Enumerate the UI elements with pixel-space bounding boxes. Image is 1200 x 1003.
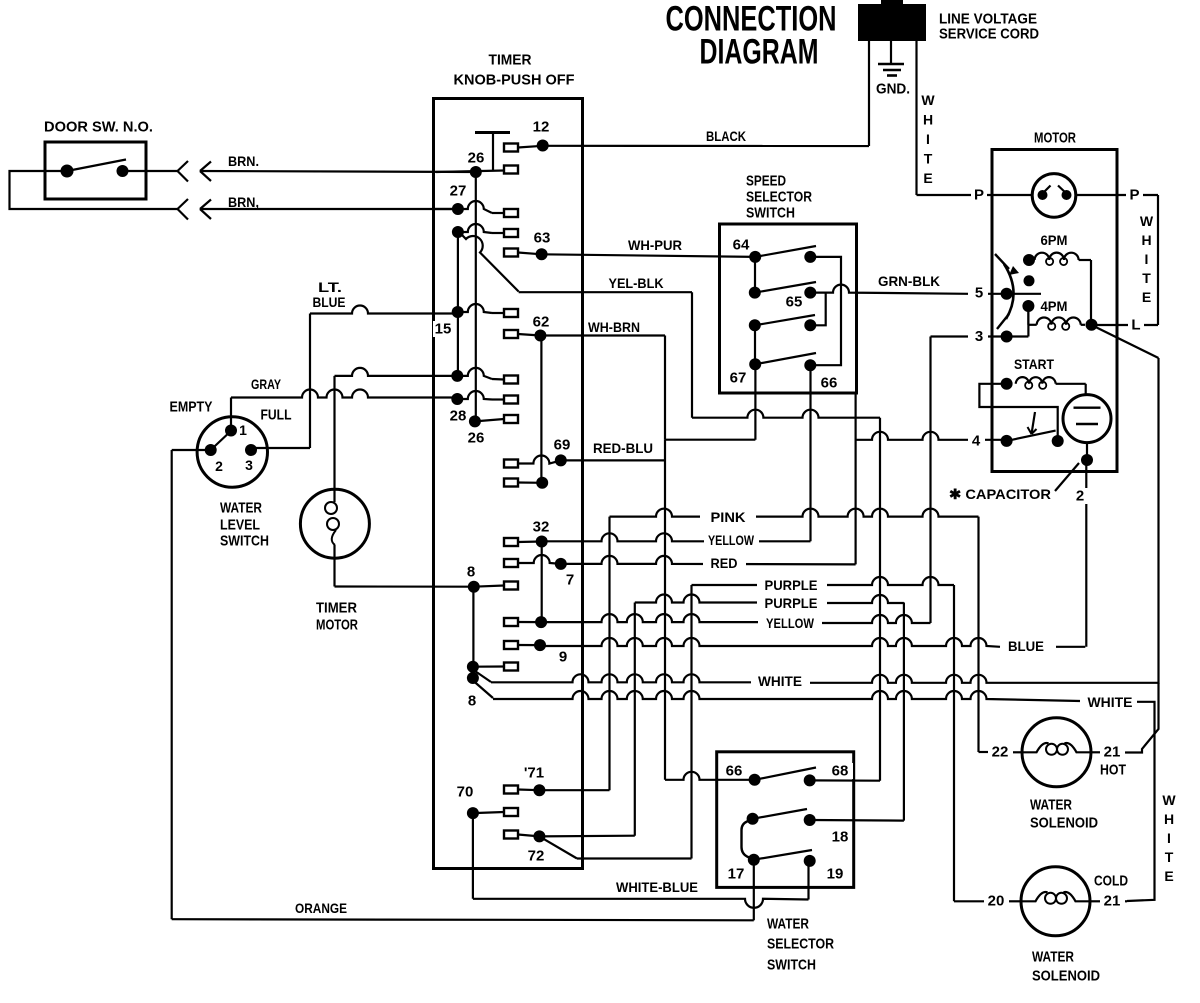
timer contact 26b [469, 415, 481, 427]
wire 71 to pink riser [539, 789, 609, 791]
speed selector contact 66 [804, 359, 837, 391]
wire YEL-BLK horizontal [519, 291, 692, 293]
motor wiper arc [995, 254, 1019, 329]
service cord (line voltage) [858, 0, 926, 41]
water selector contact 19 [804, 855, 844, 883]
timer vertical V1 26-26 [475, 172, 477, 421]
wire 62b to lug [518, 481, 542, 483]
speed selector contact 67 [730, 358, 762, 386]
motor 6PM winding contact [1023, 254, 1035, 266]
timer contact 27b [452, 226, 464, 238]
svg-text:YEL-BLK: YEL-BLK [609, 275, 664, 291]
timer contact 28/26 labels [450, 408, 485, 447]
wire P right [1076, 194, 1158, 196]
svg-text:BRN.: BRN. [228, 153, 259, 169]
wire WHITE1 run [474, 670, 1159, 683]
timer motor circle [300, 489, 369, 558]
wire WH-BRN riser [664, 336, 666, 440]
svg-text:W: W [1140, 213, 1154, 229]
wire PINK [610, 509, 979, 517]
wire WHITE2 to cold solenoid 21 [1127, 702, 1155, 901]
svg-text:12: 12 [533, 119, 550, 136]
wire WHITE-BLUE riser [472, 813, 474, 899]
svg-text:70: 70 [457, 784, 474, 801]
motor 4PM contact [1022, 300, 1034, 312]
wire 68 to yel-blk riser [810, 779, 880, 781]
svg-text:GND.: GND. [876, 81, 910, 98]
svg-text:DIAGRAM: DIAGRAM [700, 33, 819, 72]
water selector contact 66 [722, 763, 761, 786]
svg-text:TIMER: TIMER [316, 600, 357, 617]
speed selector blade row3 [755, 315, 815, 325]
label 4 (motor) [968, 432, 985, 450]
wire PINK riser from 71 [608, 517, 610, 791]
wire door switch loop left [10, 171, 178, 209]
timer vertical V2 27b-15 [457, 232, 459, 376]
svg-text:WATER: WATER [767, 916, 809, 933]
wire P line [917, 194, 1033, 196]
timer contact 27 [450, 183, 467, 216]
timer contact 12 [533, 119, 550, 152]
svg-text:SOLENOID: SOLENOID [1030, 815, 1098, 832]
door switch contact left [61, 165, 74, 178]
svg-text:26: 26 [468, 150, 485, 167]
timer vertical V5 8-8 [472, 587, 474, 678]
svg-text:E: E [923, 170, 932, 186]
speed selector vertical row3-67 [754, 325, 756, 364]
speed selector contact 64 [733, 237, 762, 263]
svg-text:SWITCH: SWITCH [767, 957, 816, 974]
wire cold 21 [1090, 900, 1127, 902]
svg-text:27: 27 [450, 183, 467, 200]
wire BLACK 12 to service cord [543, 145, 869, 147]
wire BLUE run [540, 638, 1085, 647]
svg-text:H: H [1164, 811, 1174, 827]
water selector blade 17 [754, 850, 812, 860]
wire YELLOW2 run [541, 614, 930, 623]
wire door switch to connector [123, 170, 178, 172]
speed selector U 65-row3 [810, 293, 825, 326]
wire WHITE riser from service cord to motor P [915, 41, 917, 195]
wire PURPLE1 run [692, 577, 955, 585]
wire YEL-BLK long riser to water selector 68 [879, 418, 881, 781]
wire 72 to purple1 riser [577, 857, 692, 859]
svg-text:65: 65 [786, 294, 803, 311]
wire YELLOW [542, 533, 811, 541]
timer contact 15 [433, 306, 464, 338]
speed selector row1 right contact [804, 251, 816, 263]
svg-text:72: 72 [528, 848, 545, 865]
svg-text:SPEED: SPEED [746, 173, 786, 190]
wire RED riser (speed selector) [854, 394, 856, 565]
svg-text:20: 20 [988, 893, 1005, 910]
svg-text:69: 69 [554, 437, 571, 454]
svg-text:WH-BRN: WH-BRN [588, 319, 640, 335]
svg-text:P: P [974, 187, 984, 204]
timer contact 69 [554, 437, 571, 467]
timer contact 8 mid [467, 661, 479, 673]
label WHITE (1) [753, 673, 807, 689]
svg-text:17: 17 [728, 866, 745, 883]
hot solenoid circle [1022, 718, 1091, 787]
svg-text:✱ CAPACITOR: ✱ CAPACITOR [949, 486, 1051, 502]
wire LT BLUE [310, 306, 458, 314]
svg-text:8: 8 [467, 564, 475, 581]
svg-text:H: H [923, 112, 933, 128]
svg-text:YELLOW: YELLOW [708, 532, 755, 548]
wire 72 diagonal [539, 836, 577, 858]
svg-text:GRAY: GRAY [251, 376, 282, 392]
wire motor3 riser [929, 337, 931, 624]
label 2 [1072, 488, 1088, 505]
svg-text:32: 32 [533, 519, 550, 536]
svg-text:7: 7 [566, 572, 574, 589]
label PINK [700, 509, 756, 525]
label DOOR SW. N.O. [44, 119, 153, 136]
motor wiper contact [1024, 275, 1035, 286]
wire lug to 7 [518, 555, 561, 564]
wire white-blue riser to 19 [807, 861, 809, 900]
label WHITE vertical (service cord) [921, 92, 935, 186]
wire 26b to lug [475, 419, 504, 421]
title CONNECTION DIAGRAM [666, 0, 837, 72]
timer contact 8 low [467, 672, 479, 710]
wire YEL-BLK diagonal [461, 234, 519, 292]
svg-text:WHITE: WHITE [758, 673, 802, 689]
wire lug to 9 [518, 644, 540, 646]
wire WH-BRN [540, 334, 665, 336]
svg-text:2: 2 [215, 458, 223, 474]
label 21 (hot) [1100, 744, 1125, 761]
label COLD [1094, 873, 1128, 890]
svg-text:SERVICE CORD: SERVICE CORD [939, 26, 1039, 43]
svg-text:WATER: WATER [220, 500, 262, 517]
label GRAY [251, 376, 282, 392]
svg-text:WATER: WATER [1032, 949, 1074, 966]
svg-text:5: 5 [975, 285, 983, 302]
door switch box [45, 142, 146, 199]
svg-text:66: 66 [726, 763, 743, 780]
svg-text:WHITE-BLUE: WHITE-BLUE [616, 879, 698, 895]
label TIMER KNOB-PUSH OFF [454, 52, 575, 89]
wire WHITE1 to hot solenoid 21 [1126, 683, 1159, 753]
timer contact 62b [536, 477, 548, 489]
svg-text:EMPTY: EMPTY [170, 399, 213, 416]
svg-text:8: 8 [468, 693, 476, 710]
svg-text:RED: RED [711, 555, 738, 571]
svg-text:LT.: LT. [318, 279, 342, 295]
wire YELLOW riser (speed selector 66) [809, 365, 811, 541]
ground symbol [878, 64, 904, 76]
svg-text:4PM: 4PM [1041, 298, 1068, 314]
speed selector contact 65 [786, 287, 817, 311]
label FULL [261, 407, 292, 424]
svg-text:FULL: FULL [261, 407, 292, 424]
svg-text:YELLOW: YELLOW [766, 615, 815, 631]
water selector row2 contact [747, 813, 759, 825]
timer contact 26 [464, 150, 489, 179]
motor 6PM coil [1035, 253, 1079, 265]
label WATER SELECTOR SWITCH [767, 916, 834, 974]
wire GRAY [231, 390, 457, 398]
svg-text:3: 3 [975, 328, 983, 345]
speed selector U row1-66 [810, 257, 841, 365]
label START [1014, 356, 1054, 372]
svg-text:66: 66 [821, 375, 838, 392]
wire lug to 72 [518, 835, 539, 837]
motor 4PM coil [1028, 306, 1085, 330]
svg-text:BLUE: BLUE [313, 294, 346, 310]
wire 66 to wh-brn riser [665, 772, 755, 780]
wire 5 stub [988, 293, 1041, 295]
wire start coil to capacitor [1056, 384, 1086, 395]
wire timer motor to 8 [335, 586, 505, 587]
wire BLACK riser from service cord [868, 41, 870, 146]
speed selector blade 64 [755, 246, 816, 257]
timer contact 72 [524, 830, 549, 864]
water level contact 3 [245, 444, 257, 473]
wire 28a to lug [457, 391, 504, 400]
water selector contact 17 [728, 854, 760, 883]
wire LT BLUE riser [309, 314, 311, 449]
label * CAPACITOR [949, 486, 1051, 502]
label 20 [984, 893, 1009, 910]
label PURPLE (2) [760, 595, 823, 611]
cold solenoid circle [1021, 867, 1090, 936]
motor protector circle [1032, 174, 1076, 218]
svg-text:SOLENOID: SOLENOID [1032, 968, 1100, 985]
wire white bracket right [1157, 195, 1159, 325]
svg-text:9: 9 [559, 649, 567, 666]
svg-text:2: 2 [1076, 488, 1084, 505]
label HOT [1100, 762, 1126, 779]
wire RED-BLU [561, 459, 665, 461]
ground stem [890, 41, 892, 64]
water selector contact 18 [804, 814, 849, 846]
door switch blade [67, 160, 126, 172]
svg-text:PURPLE: PURPLE [765, 577, 818, 593]
timer contact y2 [535, 616, 547, 628]
wire hot 21 [1091, 751, 1126, 753]
label BLACK [706, 128, 746, 144]
motor blade 4 [1007, 431, 1056, 441]
timer contact 63 [534, 230, 551, 261]
connector chevrons row 1 [178, 161, 212, 182]
motor contact 4 [1001, 435, 1013, 447]
timer contact 32 [533, 519, 550, 548]
svg-text:MOTOR: MOTOR [316, 617, 358, 634]
cold solenoid coil [1022, 892, 1090, 904]
svg-text:63: 63 [534, 230, 551, 247]
svg-text:4: 4 [972, 433, 981, 450]
label LINE VOLTAGE SERVICE CORD [939, 11, 1039, 43]
svg-text:T: T [1165, 849, 1174, 865]
motor contact 3 [971, 328, 1013, 345]
wire motor 4 line [856, 432, 1007, 440]
motor protector contacts [1038, 186, 1072, 201]
water selector blade row2 [753, 809, 807, 819]
label WHITE vertical (right) [1162, 792, 1176, 884]
wire timer motor to contact 8t [335, 368, 505, 380]
label WATER SOLENOID (hot) [1030, 797, 1098, 832]
wire L junction diagonal to white [1092, 325, 1159, 684]
wire PINK drop to hot solenoid [977, 517, 979, 752]
wire capacitor to blue [1085, 460, 1087, 647]
motor capacitor plates [1074, 408, 1101, 424]
timer terminal lugs [504, 144, 518, 839]
svg-text:62: 62 [533, 314, 550, 331]
label WATER SOLENOID (cold) [1032, 949, 1100, 985]
water level blade [211, 429, 233, 450]
wire to water level 3 [255, 447, 310, 449]
svg-text:MOTOR: MOTOR [1034, 130, 1076, 147]
motor capacitor bottom contact [1081, 454, 1093, 466]
timer contact 8t [451, 370, 463, 382]
label WHITE vertical (motor) [1140, 213, 1154, 305]
wire 26 row [436, 171, 504, 173]
wire ORANGE run [172, 919, 754, 920]
label PURPLE (1) [760, 577, 823, 593]
wire WH-PUR to speed selector 64 [542, 254, 756, 257]
label P right [1126, 187, 1143, 204]
label TIMER MOTOR [316, 600, 358, 634]
connector chevrons row 2 [178, 199, 212, 220]
timer vertical V3 62 down [540, 336, 542, 483]
svg-text:I: I [926, 131, 930, 147]
svg-text:'71: '71 [524, 765, 544, 782]
timer vertical V4 32 down [541, 542, 543, 623]
wire BRN to timer 27 [200, 208, 458, 210]
speed selector box [720, 224, 857, 393]
svg-text:TIMER: TIMER [489, 52, 532, 69]
svg-text:SELECTOR: SELECTOR [767, 936, 834, 953]
label RED [703, 555, 746, 571]
svg-text:KNOB-PUSH OFF: KNOB-PUSH OFF [454, 72, 575, 89]
label EMPTY [170, 399, 213, 416]
motor start contact [1001, 378, 1013, 390]
wire PURPLE2 run [635, 595, 904, 604]
label ORANGE [295, 900, 347, 916]
svg-text:START: START [1014, 356, 1054, 372]
motor capacitor circle [1063, 395, 1111, 443]
wire GRN-BLK [826, 285, 968, 294]
timer cam T-bar [475, 133, 510, 171]
svg-text:WATER: WATER [1030, 797, 1072, 814]
wire riser to water selector 66 [664, 440, 666, 780]
timer contact 8 upper [467, 564, 480, 593]
label SPEED SELECTOR SWITCH [746, 173, 812, 222]
svg-text:26: 26 [468, 430, 485, 447]
svg-text:BLACK: BLACK [706, 128, 746, 144]
wire L [1092, 324, 1159, 326]
hot solenoid coil [1023, 743, 1091, 755]
water selector C link [742, 819, 754, 860]
label WHITE (2) [1083, 694, 1137, 710]
wire capacitor bottom [1086, 443, 1088, 460]
door switch contact right [117, 165, 129, 177]
motor L junction [1086, 319, 1098, 331]
label YELLOW [704, 532, 759, 548]
svg-text:21: 21 [1104, 893, 1121, 910]
wire 70 to lug [473, 812, 504, 813]
svg-text:W: W [1162, 792, 1176, 808]
motor centrifugal arrow [1028, 412, 1037, 434]
wire start bracket [979, 384, 1057, 441]
svg-text:H: H [1141, 232, 1151, 248]
wire lug to 62 [518, 334, 540, 336]
wire lug to 12 [518, 146, 543, 148]
svg-text:15: 15 [435, 321, 452, 338]
svg-text:P: P [1129, 187, 1139, 204]
wire 3 line [931, 308, 1029, 337]
wire 8 mid to lug [473, 665, 504, 667]
svg-text:68: 68 [832, 763, 849, 780]
wire orange riser to 17 [753, 860, 755, 921]
svg-text:E: E [1142, 289, 1151, 305]
label YEL-BLK [606, 275, 667, 291]
wire YEL-BLK lower run [692, 410, 880, 418]
wire lug to y2 [518, 621, 541, 623]
svg-text:T: T [1142, 270, 1151, 286]
svg-text:GRN-BLK: GRN-BLK [878, 273, 940, 289]
speed selector blade 67 [755, 353, 816, 364]
wire pink to hot 22 [979, 751, 1022, 753]
svg-text:67: 67 [730, 370, 747, 387]
water level switch circle [197, 417, 267, 487]
motor contact 5 [971, 285, 1013, 302]
svg-text:18: 18 [832, 829, 849, 846]
speed selector vertical 64-65 [754, 257, 756, 293]
water selector contact 68 [804, 763, 853, 787]
wire timer motor riser top [333, 376, 335, 489]
wire lug to 32 [518, 540, 542, 543]
svg-text:I: I [1167, 830, 1171, 846]
wire 15 to lug [458, 304, 504, 313]
label MOTOR [1034, 130, 1076, 147]
svg-text:SWITCH: SWITCH [746, 205, 795, 222]
label GND. [876, 81, 910, 98]
label RED-BLU [590, 440, 656, 456]
wire timer motor bottom [333, 558, 335, 586]
wire water level 1 riser [230, 398, 232, 431]
label BLUE [1002, 638, 1052, 654]
wire lug to 71 [518, 788, 539, 791]
label BRN. (row 1) [228, 153, 259, 169]
wire lug to 69 [518, 456, 561, 464]
wire water level 2 left [172, 449, 211, 451]
wire RED [561, 556, 856, 565]
wire 27b to lug [458, 224, 504, 233]
wire WHITE2 run [474, 681, 1081, 701]
svg-text:W: W [921, 92, 935, 108]
timer contact 9 row (blue) [534, 639, 567, 665]
svg-text:LEVEL: LEVEL [220, 517, 260, 534]
svg-text:28: 28 [450, 408, 467, 425]
label 4PM [1038, 298, 1070, 314]
wire PURPLE1 riser from 72 [690, 585, 692, 859]
wire PURPLE2 drop to water selector 18 [903, 603, 905, 821]
label WH-BRN [586, 319, 643, 335]
label WATER LEVEL SWITCH [220, 500, 269, 550]
svg-text:SELECTOR: SELECTOR [746, 189, 812, 206]
svg-text:WHITE: WHITE [1088, 694, 1133, 710]
water level contact 1 [225, 422, 247, 438]
label 21 (cold) [1100, 893, 1125, 910]
speed selector row3 right contact [804, 319, 816, 331]
wire 6PM to L junction [1079, 260, 1091, 325]
wire left edge to 27 [435, 208, 458, 210]
svg-text:21: 21 [1104, 744, 1121, 761]
